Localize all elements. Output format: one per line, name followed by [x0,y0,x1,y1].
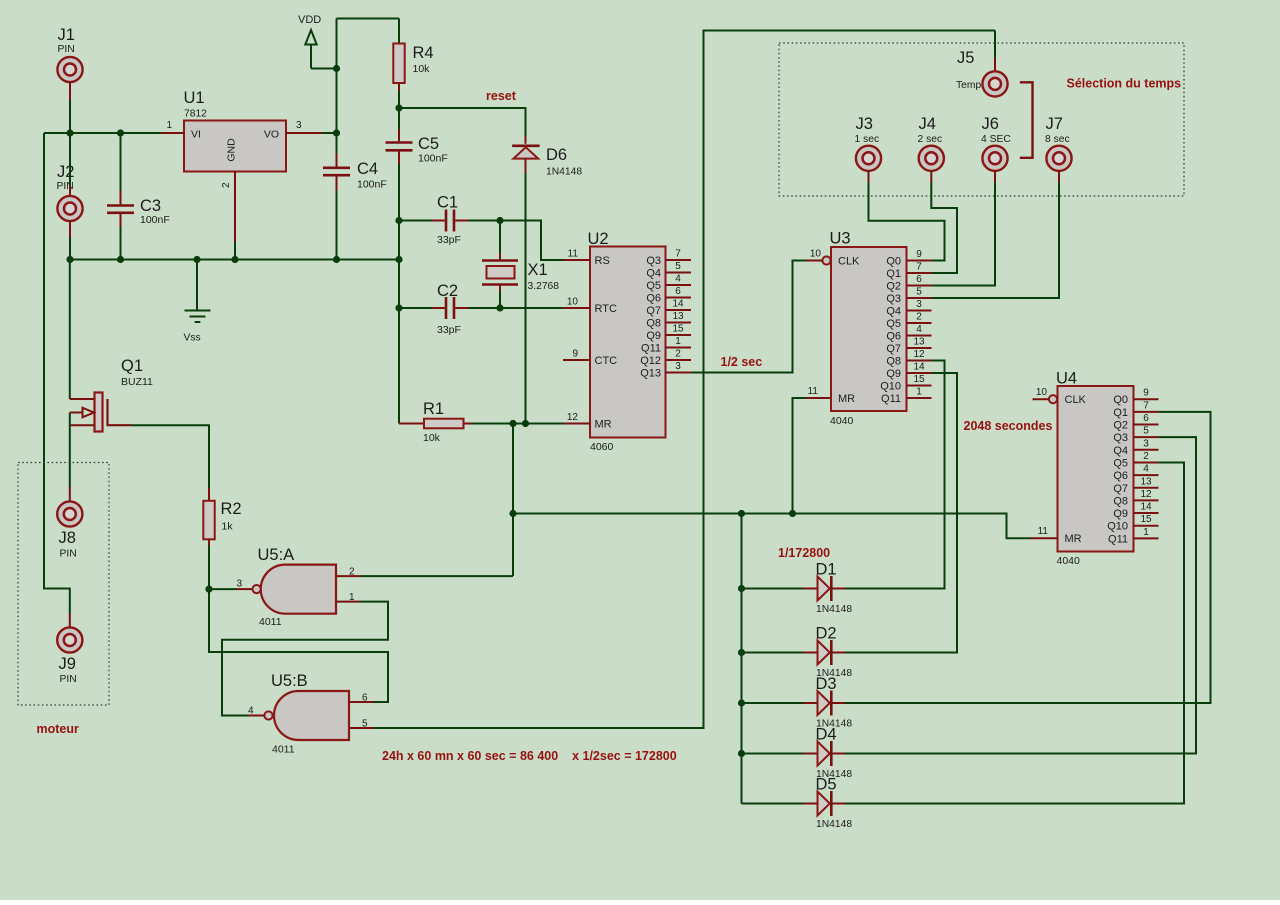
wire U4 Q3 to D4 [845,437,1196,753]
svg-text:Q11: Q11 [881,393,901,405]
wire bus to D4 [742,753,804,755]
bracket J5-J6 [1020,82,1033,158]
capacitor C1 [399,194,500,247]
svg-text:10: 10 [567,297,579,308]
wire D6 anode to MR line [525,173,527,424]
svg-text:Q8: Q8 [646,318,661,330]
svg-text:Q7: Q7 [646,305,661,317]
svg-text:Q9: Q9 [1113,508,1128,520]
svg-text:7: 7 [1143,400,1149,411]
wire left rail down to motor [44,133,70,614]
svg-text:1/172800: 1/172800 [778,546,830,560]
svg-text:2: 2 [221,182,232,188]
svg-text:Q6: Q6 [646,293,661,305]
svg-text:14: 14 [1140,502,1152,513]
pin 6 Q2 U3 [886,274,931,293]
diode D1 1N4148 [803,561,852,616]
wire U3 Q9 to D2 [845,373,957,653]
svg-text:100nF: 100nF [357,179,387,191]
svg-text:Q6: Q6 [886,331,901,343]
connector J3 [855,115,882,182]
wire Q1 gate to R2 [131,425,209,488]
svg-text:10: 10 [810,249,822,260]
node MR/U5A junction [509,420,516,427]
svg-text:10k: 10k [423,432,441,444]
connector J7 [1045,115,1072,182]
svg-text:2: 2 [675,349,681,360]
svg-text:Q12: Q12 [640,355,661,367]
svg-text:Q5: Q5 [886,318,901,330]
svg-text:Q5: Q5 [646,280,661,292]
svg-text:MR: MR [595,419,612,431]
svg-text:5: 5 [362,719,368,730]
svg-text:Q11: Q11 [1108,533,1128,545]
svg-text:CLK: CLK [1065,394,1087,406]
svg-text:4: 4 [1143,464,1149,475]
node bus C4 [333,256,340,263]
svg-text:12: 12 [567,412,579,423]
pin 3 Q4 U3 [886,299,931,318]
pin 4 Q6 U3 [886,324,931,343]
svg-text:Q9: Q9 [646,330,661,342]
svg-text:Q3: Q3 [886,293,901,305]
pin 10 CLK U3 [806,249,860,268]
svg-text:VDD: VDD [298,14,321,26]
svg-text:C5: C5 [418,135,439,153]
svg-text:R2: R2 [221,500,242,518]
svg-text:6: 6 [675,286,681,297]
svg-text:Q8: Q8 [886,356,901,368]
wire J3 to U3 Q0 [869,182,945,261]
svg-text:Q11: Q11 [641,343,661,355]
pin 6 Q6 U2 [646,286,691,305]
pin 12 Q8 U3 [886,349,931,368]
svg-text:J2: J2 [57,163,74,181]
svg-text:Q1: Q1 [121,357,143,375]
svg-text:Q10: Q10 [1107,521,1128,533]
svg-text:1: 1 [349,592,355,603]
capacitor C2 [399,282,500,336]
wire U5A pin2 [361,575,514,577]
svg-text:3: 3 [675,361,681,372]
svg-text:BUZ11: BUZ11 [121,376,153,388]
pin 14 Q7 U2 [646,299,691,318]
svg-text:J9: J9 [59,655,76,673]
svg-text:4040: 4040 [830,415,854,427]
svg-text:1N4148: 1N4148 [816,819,852,830]
node bus D4 [738,750,745,757]
svg-text:3: 3 [296,120,302,131]
diode D2 1N4148 [803,625,852,680]
wire J6 to U3 Q2 [932,182,996,286]
svg-text:PIN: PIN [57,181,74,192]
svg-text:U4: U4 [1056,370,1077,388]
capacitor C3 [107,133,170,260]
svg-text:Q4: Q4 [886,306,901,318]
svg-text:Q10: Q10 [880,381,901,393]
diode D5 1N4148 [803,776,852,831]
node bus right end [395,256,402,263]
svg-text:2048 secondes: 2048 secondes [964,419,1053,433]
svg-text:Q7: Q7 [886,343,901,355]
wire U4 Q5 to D5 [845,462,1184,803]
svg-text:1N4148: 1N4148 [546,167,582,178]
svg-text:100nF: 100nF [418,153,448,165]
svg-text:3: 3 [236,579,242,590]
pin 2 Q12 U2 [640,349,691,368]
svg-text:24h x 60 mn x 60 sec = 86 400: 24h x 60 mn x 60 sec = 86 400 x 1/2sec =… [382,749,677,763]
svg-text:4: 4 [248,706,254,717]
pin 12 MR U2 [563,412,612,431]
svg-text:9: 9 [572,349,578,360]
pin 14 Q9 U4 [1113,502,1158,521]
wire bus to D3 [742,702,804,704]
svg-text:GND: GND [226,138,238,162]
pin 15 Q10 U4 [1107,514,1158,533]
node bus ground tap [193,256,200,263]
svg-text:2: 2 [1143,451,1149,462]
transistor Q1 BUZ11 [70,260,153,488]
svg-text:2: 2 [349,567,355,578]
wire J7 to U3 Q3 [932,182,1060,298]
gate U5:A 4011 [236,546,360,628]
svg-text:1N4148: 1N4148 [816,604,852,615]
pin 1 Q11 U2 [641,336,691,355]
pin 3 Q4 U4 [1113,438,1158,457]
svg-text:15: 15 [1140,514,1152,525]
svg-text:VO: VO [264,129,279,141]
wire reset bus down [513,514,1031,539]
svg-text:MR: MR [1065,533,1082,545]
svg-text:33pF: 33pF [437,324,461,336]
svg-text:U1: U1 [184,89,205,107]
svg-text:Q7: Q7 [1113,483,1128,495]
svg-text:Q9: Q9 [886,368,901,380]
wire U5A out to R2 [209,588,237,590]
node VDD arrow junction [333,65,340,72]
node R4/C5/reset junction [395,104,402,111]
wire U3 MR [793,398,807,514]
svg-text:6: 6 [916,274,922,285]
svg-text:Vss: Vss [184,333,201,344]
wire U5A pin1 to U5B out [222,602,388,716]
svg-text:11: 11 [568,249,579,260]
svg-text:MR: MR [838,393,855,405]
pin 5 Q3 U3 [886,287,931,306]
svg-text:D3: D3 [816,675,837,693]
svg-text:10: 10 [1036,387,1048,398]
ground vertical rail [398,221,400,424]
node bus D3 [738,699,745,706]
svg-text:Sélection du temps: Sélection du temps [1067,77,1182,91]
svg-text:U5:A: U5:A [258,546,295,564]
wire C1 node to RS [500,221,563,261]
svg-text:PIN: PIN [58,44,75,55]
node C2 left [395,304,402,311]
svg-text:U3: U3 [830,230,851,248]
pin 9 Q0 U4 [1113,388,1158,407]
node C1 left [395,217,402,224]
pin 12 Q8 U4 [1113,489,1158,508]
pin 2 Q5 U3 [886,312,931,331]
svg-text:4 SEC: 4 SEC [981,134,1011,145]
svg-text:reset: reset [486,89,517,103]
node R2/U5A out junction [205,586,212,593]
node bus left [509,510,516,517]
svg-text:4011: 4011 [272,744,295,756]
svg-text:2: 2 [916,312,922,323]
svg-text:Q5: Q5 [1113,457,1128,469]
pin 11 MR U3 [806,386,855,405]
IC U3 4040 [830,230,907,428]
wire U5A out node to U5B pin6 [209,589,388,702]
svg-text:Q4: Q4 [646,268,661,280]
svg-text:100nF: 100nF [140,214,170,226]
power VDD [298,14,337,69]
pin 13 Q7 U3 [886,337,931,356]
svg-text:11: 11 [808,386,819,397]
pin 2 Q5 U4 [1113,451,1158,470]
svg-text:D5: D5 [816,776,837,794]
svg-text:Q1: Q1 [886,268,901,280]
svg-text:Q3: Q3 [646,255,661,267]
pin 3 Q13 U2 [640,361,691,380]
svg-text:5: 5 [675,261,681,272]
pin 5 Q4 U2 [646,261,691,280]
svg-text:VI: VI [191,129,201,141]
svg-text:R1: R1 [423,400,444,418]
svg-text:J4: J4 [919,115,936,133]
svg-text:C3: C3 [140,197,161,215]
svg-text:1: 1 [916,387,922,398]
pin 15 Q9 U2 [646,324,691,343]
node C3 top junction [117,129,124,136]
connector J2 [57,133,83,260]
box selection du temps [779,43,1184,196]
connector J4 [918,115,944,182]
connector J9 [57,614,82,686]
svg-text:Q4: Q4 [1113,445,1128,457]
diode D6 [512,136,582,178]
svg-text:CTC: CTC [595,355,618,367]
node MR/D6 junction [522,420,529,427]
diode D3 1N4148 [803,675,852,730]
svg-text:3: 3 [916,299,922,310]
svg-text:R4: R4 [413,44,434,62]
node bus C3 [117,256,124,263]
svg-text:11: 11 [1038,526,1049,537]
wire bus to D1 [742,588,804,590]
svg-text:1k: 1k [222,521,234,533]
svg-text:4060: 4060 [590,441,614,453]
svg-text:Q0: Q0 [1113,394,1128,406]
svg-text:5: 5 [916,287,922,298]
svg-text:D4: D4 [816,726,837,744]
resistor R4 [393,19,433,109]
svg-text:4: 4 [916,324,922,335]
ground Vss [184,260,211,344]
wire U1 VO to VDD node [322,132,337,134]
svg-text:1: 1 [166,120,172,131]
pin 14 Q9 U3 [886,362,931,381]
svg-text:13: 13 [672,311,684,322]
svg-text:J7: J7 [1046,115,1063,133]
pin 11 RS U2 [563,249,610,268]
pin 1 Q11 U3 [881,387,931,406]
crystal X1 [482,221,559,309]
pin 13 Q7 U4 [1113,476,1158,495]
svg-text:U2: U2 [588,230,609,248]
svg-text:7: 7 [916,262,922,273]
svg-text:RS: RS [595,255,610,267]
node VO junction [333,129,340,136]
svg-text:33pF: 33pF [437,234,461,246]
wire U3 Q8 to D1 [845,361,945,589]
pin 6 Q2 U4 [1113,413,1158,432]
svg-text:4040: 4040 [1057,555,1081,567]
pin 9 Q0 U3 [886,249,931,268]
svg-text:C1: C1 [437,194,458,212]
pin 4 Q5 U2 [646,274,691,293]
pin 10 RTC U2 [563,297,617,316]
svg-text:PIN: PIN [60,674,77,685]
svg-text:6: 6 [362,693,368,704]
IC U4 4040 [1056,370,1134,568]
svg-text:X1: X1 [528,261,548,279]
svg-text:2 sec: 2 sec [918,134,943,145]
svg-text:J3: J3 [856,115,873,133]
svg-text:RTC: RTC [595,303,617,315]
svg-text:Q0: Q0 [886,256,901,268]
diode D4 1N4148 [803,726,852,781]
svg-text:9: 9 [916,249,922,260]
pin 4 Q6 U4 [1113,464,1158,483]
svg-text:PIN: PIN [60,549,77,560]
svg-text:1: 1 [675,336,681,347]
svg-text:Q1: Q1 [1113,407,1128,419]
node bus U1 pin2 [231,256,238,263]
svg-text:1/2 sec: 1/2 sec [721,355,763,369]
connector J8 [57,487,82,560]
pin 7 Q1 U3 [886,262,931,281]
svg-text:J8: J8 [59,529,76,547]
node bus D1 [738,585,745,592]
svg-text:12: 12 [913,349,925,360]
svg-text:Q6: Q6 [1113,470,1128,482]
wire diode anode bus [741,514,743,804]
svg-text:13: 13 [913,337,925,348]
svg-text:Q3: Q3 [1113,432,1128,444]
connector J6 [981,115,1011,182]
node C1/X1 junction [496,217,503,224]
svg-text:5: 5 [1143,426,1149,437]
svg-text:Q2: Q2 [1113,420,1128,432]
svg-text:D2: D2 [816,625,837,643]
resistor R1 [399,400,563,444]
svg-text:14: 14 [672,299,684,310]
svg-text:1: 1 [1143,527,1149,538]
ground bus [70,259,399,261]
wire U5B pin5 to J5 [374,31,996,729]
svg-text:13: 13 [1140,476,1152,487]
svg-text:J6: J6 [982,115,999,133]
wire VDD riser [336,19,338,134]
node bus J2 [66,256,73,263]
svg-text:14: 14 [913,362,925,373]
node U3 MR tap [789,510,796,517]
pin 11 MR U4 [1031,526,1082,545]
box moteur [18,463,109,706]
svg-text:9: 9 [1143,388,1149,399]
pin 13 Q8 U2 [646,311,691,330]
node J1/VI junction [66,129,73,136]
pin 9 CTC U2 [563,349,617,368]
pin 1 Q11 U4 [1108,527,1158,546]
pin 5 Q3 U4 [1113,426,1158,445]
svg-text:Q13: Q13 [640,368,661,380]
wire J4 to U3 Q1 [931,182,957,273]
wire VDD top rail [337,18,400,20]
svg-text:15: 15 [672,324,684,335]
node diode bus top [738,510,745,517]
pin 10 CLK U4 [1033,387,1087,406]
svg-text:12: 12 [1140,489,1152,500]
connector J1 [57,26,82,100]
IC U2 4060 [588,230,666,453]
capacitor C4 [323,133,387,260]
svg-text:C2: C2 [437,282,458,300]
svg-text:6: 6 [1143,413,1149,424]
regulator U1 7812 [161,89,322,260]
wire bus to D2 [742,652,804,654]
connector J5 [956,31,1008,97]
wire J1 to VI rail [69,100,71,133]
wire U4 Q1 to D3 [845,412,1211,703]
resistor R2 [203,488,241,589]
node C2/X1 junction [496,304,503,311]
svg-text:8 sec: 8 sec [1045,134,1070,145]
svg-text:C4: C4 [357,160,378,178]
wire C2 node to RTC [500,307,563,309]
wire reset [399,108,526,136]
svg-text:U5:B: U5:B [271,672,308,690]
svg-text:3.2768: 3.2768 [528,281,560,292]
svg-text:7812: 7812 [184,109,207,120]
pin 7 Q3 U2 [646,249,691,268]
wire VI rail [44,132,161,134]
wire Q13 to U3 CLK (1/2 sec) [691,261,806,373]
svg-text:moteur: moteur [37,722,80,736]
svg-text:Q8: Q8 [1113,495,1128,507]
pin 7 Q1 U4 [1113,400,1158,419]
wire bus to D5 [742,803,804,805]
svg-text:D6: D6 [546,146,567,164]
gate U5:B 4011 [248,672,374,756]
svg-text:Q2: Q2 [886,281,901,293]
svg-text:J1: J1 [58,26,75,44]
svg-text:4: 4 [675,274,681,285]
svg-text:7: 7 [675,249,681,260]
svg-text:10k: 10k [413,63,431,75]
svg-text:15: 15 [913,374,925,385]
capacitor C5 [386,108,448,221]
svg-text:J5: J5 [957,49,974,67]
wire U5A pin2 riser [512,424,514,577]
node bus D2 [738,649,745,656]
svg-text:D1: D1 [816,561,837,579]
svg-text:3: 3 [1143,438,1149,449]
svg-text:1 sec: 1 sec [855,134,880,145]
